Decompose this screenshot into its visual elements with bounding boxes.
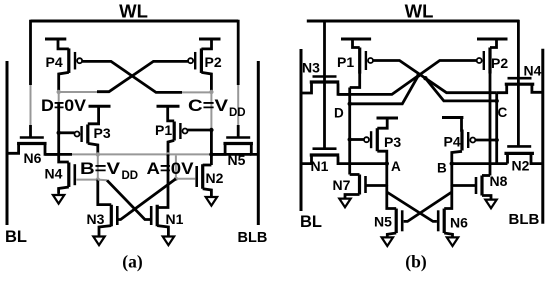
BLB label (a) (238, 230, 268, 246)
ground below N7 (b) (339, 199, 350, 208)
wire node D line to P2 gate (b) (338, 61, 477, 95)
braid junction dot D (b) (416, 73, 420, 77)
svg-text:P1: P1 (337, 54, 354, 70)
wire VDD to P2 source (b) (490, 39, 497, 48)
transistor N3 (a) (111, 205, 117, 227)
transistor N3 (b) (310, 77, 340, 83)
transistor P4 (a) (69, 48, 82, 72)
svg-text:N6: N6 (450, 215, 468, 231)
node B label (b) (437, 161, 447, 176)
transistor N8 (b) (476, 176, 482, 196)
svg-text:N6: N6 (24, 150, 42, 166)
wire node C dot branch (b) (425, 78, 496, 101)
N1 label (b) (311, 158, 329, 174)
N4 label (b) (524, 63, 542, 79)
wire N4 drain to BLB (b) (532, 86, 543, 93)
svg-text:P2: P2 (491, 55, 508, 71)
P4 label (b) (444, 134, 461, 150)
wire P1 drain to node D riser (b) (350, 73, 360, 88)
wire node C riser (b) (495, 93, 498, 163)
wire node B to N3 drain (a) (98, 180, 112, 205)
word line WL label (a) (119, 1, 148, 22)
wire WL right drop to N5 gate (a) (237, 20, 240, 138)
wire N8 drain to P2 drain column (b) (482, 174, 490, 177)
wire N5 source to node C column (a) (211, 145, 225, 155)
svg-text:WL: WL (405, 1, 434, 22)
svg-text:P3: P3 (94, 125, 111, 141)
svg-text:BL: BL (300, 213, 322, 231)
P3 gate junction dot (b) (348, 137, 352, 141)
N6 label (b) (450, 215, 468, 231)
wire P4 gate to node C cross-couple (a) (82, 61, 211, 92)
svg-text:P2: P2 (205, 54, 222, 70)
svg-text:BLB: BLB (238, 230, 268, 246)
wire N6 source down (b) (444, 233, 452, 237)
ground below N1 (a) (163, 236, 174, 245)
wire N1 source to BL (b) (301, 157, 312, 164)
VDD bar of P2 (a) (199, 38, 221, 41)
wire VDD to P3 source (a) (88, 106, 99, 124)
transistor N6 (b) (438, 209, 444, 234)
P3 label (b) (384, 134, 401, 150)
P1 label (b) (337, 54, 354, 70)
wire P4 gate to node C riser (b) (475, 139, 496, 142)
N3 label (b) (302, 60, 320, 76)
VDD bar of P1 (a) (157, 105, 180, 108)
wire P2 gate to node D cross-couple (a) (59, 61, 188, 92)
svg-text:P1: P1 (155, 122, 172, 138)
transistor P4 (b) (462, 130, 475, 151)
node C label C=VDD (a) (188, 96, 246, 119)
wire N3 source to BL (b) (301, 84, 312, 94)
node B junction dot (a) (96, 177, 100, 181)
ground below N3 (a) (93, 236, 104, 245)
wire P1 drain to mid rail (a) (168, 140, 174, 154)
P4 label (a) (46, 54, 63, 70)
node C rail dot (a) (209, 152, 213, 156)
svg-text:B: B (437, 161, 447, 176)
wire N4 gate to node B (a) (76, 179, 98, 181)
wire node B to N5 gate diagonal (b) (404, 192, 452, 221)
transistor P2 (a) (188, 48, 201, 72)
svg-text:P4: P4 (444, 134, 461, 150)
N4 label (a) (45, 166, 63, 182)
wire N4 source to node C riser (b) (497, 86, 507, 93)
node D label D=0V (a) (41, 96, 87, 115)
wire node D column (a) (58, 92, 60, 154)
N5 label (b) (374, 214, 392, 230)
wire N7 source down (b) (345, 195, 360, 199)
svg-text:(a): (a) (122, 252, 143, 272)
wire P3 gate to node D (a) (59, 131, 75, 134)
BLB label (b) (509, 211, 540, 228)
svg-text:N4: N4 (45, 166, 63, 182)
svg-text:N5: N5 (374, 214, 392, 230)
transistor N2 (b) (504, 146, 534, 153)
P1 drain rail dot (a) (166, 152, 170, 156)
wire N2 source node B line (b) (506, 155, 509, 164)
svg-text:C=V: C=V (188, 96, 229, 115)
wire P3 gate to node D riser (b) (350, 138, 364, 141)
wire N7 gate to node A column (b) (366, 184, 387, 187)
wire VDD to P2 source (a) (201, 39, 211, 49)
wire P1 gate to node C line (b) (373, 61, 497, 93)
VDD bar of P3 (b) (377, 117, 399, 120)
caption (a) (122, 252, 143, 272)
wire node B column (b) (450, 164, 453, 186)
wire N6 drain to node D column (a) (45, 145, 59, 155)
wire node D riser to N7 drain (b) (350, 173, 360, 176)
wire N2 source down (a) (203, 189, 212, 196)
wire node A column to N5 drain (b) (387, 186, 396, 209)
svg-text:D: D (334, 106, 344, 121)
node D label (b) (334, 106, 344, 121)
ground below N2 (a) (206, 196, 217, 206)
svg-text:BLB: BLB (509, 211, 540, 228)
node B label B=VDD (a) (80, 159, 138, 182)
bitline BLB (b) (541, 49, 544, 224)
svg-text:N3: N3 (87, 211, 105, 227)
svg-text:P4: P4 (46, 54, 63, 70)
node A label (b) (391, 159, 401, 174)
svg-text:C: C (498, 105, 508, 120)
svg-text:N2: N2 (512, 158, 530, 174)
svg-text:DD: DD (229, 107, 246, 119)
N1 label (a) (166, 211, 184, 227)
ground below N4 (a) (53, 194, 64, 204)
svg-text:P3: P3 (384, 134, 401, 150)
wire N1 drain node A line (b) (338, 157, 387, 164)
transistor N4 (a) (69, 162, 75, 187)
svg-text:N7: N7 (333, 177, 351, 193)
svg-text:(b): (b) (405, 252, 427, 272)
node C branch dot (b) (495, 99, 499, 103)
wire P2 drain to node C (a) (201, 72, 211, 92)
svg-text:DD: DD (122, 170, 139, 182)
transistor N5 (a) (223, 138, 253, 144)
VDD bar of P2 (b) (477, 38, 508, 41)
N8 label (b) (490, 173, 508, 189)
wire N8 source down (b) (482, 196, 491, 200)
wire VDD to P4 source (a) (58, 39, 69, 49)
wire N6 source to BL (a) (7, 145, 19, 154)
wire WL right drop through N4 gate to N2 gate (b) (517, 20, 520, 147)
wire node A to N6 gate diagonal (b) (387, 192, 437, 221)
wire node A to N3 gate diagonal (a) (116, 179, 176, 220)
svg-text:A: A (391, 159, 401, 174)
wire N3 source down (a) (99, 226, 111, 237)
wire node A column (b) (385, 164, 388, 186)
node A label A=0V (a) (147, 159, 195, 178)
wire VDD to P4 source (b) (460, 118, 463, 131)
node C junction dot (a) (209, 90, 213, 94)
wire node D to N4 drain (a) (59, 154, 69, 162)
VDD bar of P4 (b) (442, 116, 463, 119)
wire N1 source down (a) (157, 226, 168, 237)
transistor N7 (b) (360, 175, 366, 195)
VDD bar of P4 (a) (45, 38, 66, 41)
transistor P2 (b) (477, 48, 490, 74)
transistor N2 (a) (197, 164, 203, 189)
wire VDD to P1 source (a) (168, 106, 175, 121)
ground below N5 (b) (382, 237, 393, 246)
transistor N4 (b) (505, 78, 535, 84)
wire WL horizontal (b) (307, 20, 519, 23)
wire N4 source down (a) (59, 187, 69, 194)
P3 gate junction dot (a) (57, 131, 61, 135)
P4 gate junction dot (b) (495, 138, 499, 142)
wire N1 drain riser (a) (157, 154, 168, 207)
N5 label (a) (228, 152, 246, 168)
ground below N6 (b) (447, 237, 458, 246)
bitline BLB (a) (257, 61, 260, 225)
wire P4 drain to node B (b) (452, 151, 462, 163)
svg-text:N1: N1 (166, 211, 184, 227)
wire P4 drain to node D (a) (59, 72, 69, 92)
wire middle rail (a) (45, 153, 251, 156)
transistor P3 (b) (364, 128, 377, 151)
N6 label (a) (24, 150, 42, 166)
transistor P3 (a) (75, 125, 88, 144)
VDD bar of P1 (b) (341, 38, 371, 41)
bitline BL (a) (6, 61, 9, 225)
wire node C column (a) (210, 92, 212, 165)
svg-text:A=0V: A=0V (147, 159, 195, 178)
wire VDD to P3 source (b) (377, 118, 387, 128)
N7 label (b) (333, 177, 351, 193)
transistor N1 (b) (310, 149, 340, 155)
wire WL horizontal (a) (31, 20, 239, 23)
word line WL label (b) (405, 1, 434, 22)
svg-text:N2: N2 (206, 170, 224, 186)
wire node B column (a) (97, 154, 99, 179)
caption (b) (405, 252, 427, 272)
wire P3 drain to node B (a) (88, 143, 98, 154)
P1 label (a) (155, 122, 172, 138)
node D junction dot (a) (57, 90, 61, 94)
node B junction dot (b) (450, 161, 454, 165)
wire node D dot branch (b) (350, 75, 419, 104)
P2 label (a) (205, 54, 222, 70)
wire N5 source down (b) (387, 233, 396, 237)
wire node C to N2 drain (a) (203, 164, 212, 167)
transistor P1 (a) (174, 122, 187, 141)
P3 label (a) (94, 125, 111, 141)
wire P3 drain to node A (b) (377, 151, 387, 163)
wire node A column (a) (175, 156, 177, 179)
wire N8 gate to node B column (b) (452, 184, 476, 187)
wire P2 drain down to N8 (b) (489, 73, 492, 176)
BL label (a) (5, 228, 27, 246)
svg-text:N8: N8 (490, 173, 508, 189)
wire node B to N1 gate diagonal (a) (98, 180, 150, 220)
N2 label (b) (512, 158, 530, 174)
transistor N6 (a) (17, 138, 47, 144)
wire N5 drain to BLB (a) (251, 145, 258, 155)
wire WL left drop through N3 gate to N1 gate (b) (323, 20, 326, 149)
VDD bar of P3 (a) (89, 105, 111, 108)
node A junction dot (a) (174, 177, 178, 181)
N3 label (a) (87, 211, 105, 227)
svg-text:B=V: B=V (80, 159, 121, 178)
P1 gate junction dot (a) (209, 128, 213, 132)
wire N3 drain to node D line (b) (338, 84, 350, 95)
node A junction dot (b) (385, 161, 389, 165)
svg-text:WL: WL (119, 1, 148, 22)
node D branch dot (b) (348, 102, 352, 106)
svg-text:BL: BL (5, 228, 27, 246)
node C label (b) (498, 105, 508, 120)
wire node B line (b) (452, 162, 508, 165)
wire VDD to P1 source (b) (353, 39, 360, 48)
wire WL left drop to N6 gate (a) (29, 20, 32, 138)
svg-text:N3: N3 (302, 60, 320, 76)
transistor N5 (b) (396, 209, 402, 234)
ground below N8 (b) (485, 200, 496, 209)
wire N2 gate to node A (a) (176, 178, 195, 180)
P2 label (b) (491, 55, 508, 71)
wire node B column to N6 drain (b) (444, 186, 452, 209)
transistor P1 (b) (360, 48, 373, 74)
BL label (b) (300, 213, 322, 231)
wire P1 gate to node C (a) (188, 129, 212, 132)
bitline BL (b) (300, 49, 303, 211)
svg-text:N1: N1 (311, 158, 329, 174)
svg-text:N4: N4 (524, 63, 542, 79)
svg-text:D=0V: D=0V (41, 96, 87, 115)
node B rail dot (a) (96, 152, 100, 156)
wire N2 drain to BLB (b) (531, 155, 543, 164)
wire node D riser (b) (348, 88, 351, 175)
transistor N1 (a) (151, 205, 157, 227)
braid junction dot C (b) (423, 76, 427, 80)
N2 label (a) (206, 170, 224, 186)
